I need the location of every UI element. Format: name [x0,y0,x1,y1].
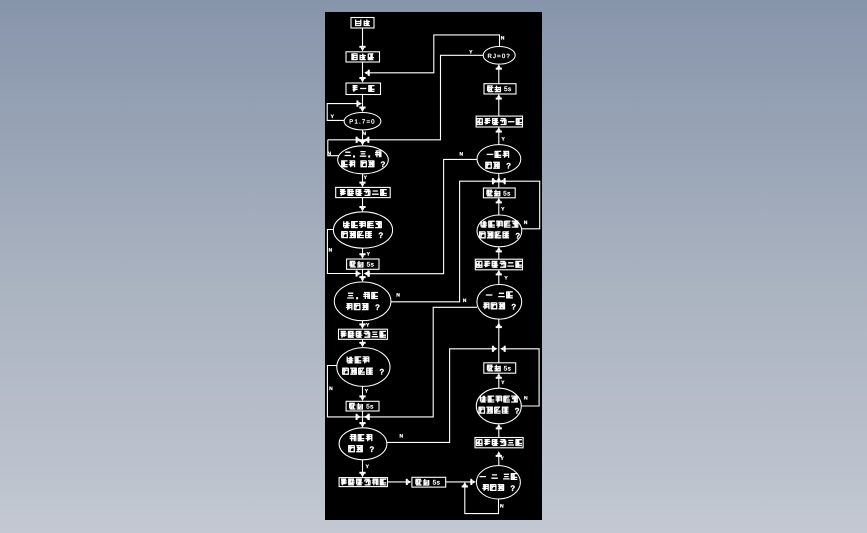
wire: 本楼1 N skip-loop [327,230,357,274]
process box: 上升到达三楼 [339,329,388,339]
svg-text:?: ? [515,231,520,240]
process box: 停留5s (3) [412,477,446,487]
svg-text:N: N [329,386,333,392]
wire: 停留5s2 -> 四楼有请求 with junction [362,411,364,424]
decision ellipse: RJ=0? [483,47,515,65]
decision ellipse: P1.7=0 [344,113,381,130]
decision ellipse: 二，三，四楼有请求? [338,146,389,174]
svg-text:?: ? [379,368,384,377]
svg-text:Y: Y [469,49,473,55]
svg-text:Y: Y [366,323,370,329]
wire: 下降到达一楼 -> 停留5s top [498,98,500,117]
process box: 下降到达三楼 [475,438,523,448]
process box: 在一楼 (at floor 1) [346,83,381,95]
process box: 停留5s (r2) [484,363,516,373]
process box: 上升到达四楼 [339,478,387,487]
decision ellipse: 本楼层是否请求目标? (r1) [477,215,522,247]
wire: P1.7=0 -> 二三四楼有请求 with junction [362,130,364,142]
decision ellipse: 一 二 三楼有请求? [476,466,520,499]
svg-text:Y: Y [364,175,368,181]
svg-text:Y: Y [504,275,508,281]
svg-text:5s: 5s [504,86,512,93]
decision ellipse: 本楼层是否请求目标? (1) [333,212,392,248]
svg-text:Y: Y [501,380,505,386]
wire: 下降到达三楼 -> 本楼r2 [498,427,500,437]
svg-text:?: ? [510,484,515,493]
process box: 下降到达一楼 [476,116,522,127]
wire: 在一楼 -> P1.7=0 [362,95,364,109]
wire: 开始 -> 初始化 [362,28,364,48]
svg-text:5s: 5s [366,404,374,411]
junction arrows at y=181.2 right column [492,178,494,184]
svg-text:?: ? [511,302,516,311]
svg-text:5s: 5s [503,190,511,197]
junction arrows at y=348.8 right column [492,346,494,352]
wire: 本楼2 N skip-loop [327,366,357,417]
wire: 一楼 N -> far left down to junction y=273.5 [368,159,477,273]
svg-text:?: ? [369,445,374,454]
process box: 下降到达二楼 [475,259,522,270]
svg-text:?: ? [375,303,380,312]
process box: 停留5s (2) [346,401,379,411]
process box: 停留5s (r1) [483,188,515,198]
wire: 四楼 N -> right up to junction y=348.8 [387,349,494,443]
svg-text:5s: 5s [367,262,375,269]
svg-text:N: N [396,293,400,299]
wire: 停留5s1 -> 三四楼有请求 with junction [362,269,364,278]
wire: 上升到达二楼 -> 本楼层是否请求目标1 [362,198,364,208]
wire: 停留5sr2 -> 一二楼有请求 through junction [498,319,500,363]
process box: 初始化 (initialize) [346,52,380,62]
decision ellipse: 一，二楼有请求? [477,285,522,320]
process box: 上升到达二楼 [336,187,391,197]
svg-text:N: N [463,298,467,304]
arrowhead into 一楼 bottom [496,180,502,182]
decision ellipse: 三，四楼有请求? [334,282,391,321]
wire: 一二三楼 Y -> 下降到达三楼 [498,455,500,466]
svg-text:Y: Y [331,114,335,120]
svg-text:N: N [329,248,333,254]
svg-text:?: ? [378,231,383,240]
svg-text:?: ? [515,407,520,416]
svg-text:Y: Y [501,207,505,213]
svg-text:?: ? [506,162,511,171]
wire: 二三四楼 N self-loop left [328,140,339,156]
wire: 本楼r1 Y -> 停留5s r1 [498,201,500,215]
wire: 本楼r1 N skip-loop right [505,181,540,229]
svg-text:5s: 5s [433,480,441,487]
svg-text:Y: Y [366,464,370,470]
svg-text:Y: Y [501,456,505,462]
wire: 本楼2 Y -> 停留5s 2 [362,386,364,397]
wire: 停留5stop -> RJ=0 [498,68,500,84]
wire: 本楼1 Y -> 停留5s 1 [362,248,364,255]
wire: 一二三楼 N bottom self-loop [465,486,499,514]
decision ellipse: 四楼有请求? [339,428,387,460]
wire: 初始化 -> 在一楼 with feedback join [362,62,364,79]
svg-text:N: N [327,151,331,157]
wire: P1.7=0 Y self-loop [327,104,357,121]
wire: RJ=0 Y -> down to junction y=139.8 [360,55,483,140]
wire: 上升到达三楼 -> 本楼2 [362,339,364,344]
svg-text:5s: 5s [504,365,512,372]
wire: 三四楼 Y -> 上升到达三楼 [362,321,364,326]
wire: 二三四楼 Y -> 上升到达二楼 [362,174,364,184]
svg-text:RJ=0?: RJ=0? [487,53,511,60]
CAD viewport black canvas [325,12,542,520]
svg-text:N: N [524,396,528,402]
svg-text:N: N [501,35,505,41]
wire: 一二楼 Y -> 下降到达二楼 [498,273,500,284]
wire: RJ=0 N -> top left feedback to 在一楼 input [368,35,500,73]
process box: 停留5s (1) [347,259,379,269]
svg-text:?: ? [380,160,385,169]
decision ellipse: 本楼层 请求目标? (2) [337,348,390,387]
svg-text:Y: Y [367,252,371,258]
svg-text:N: N [362,131,366,137]
svg-text:N: N [524,220,528,226]
svg-text:N: N [399,433,403,439]
svg-text:N: N [459,152,463,158]
wire: 三四楼 N -> right up to junction y=181.2 [391,181,494,302]
wire: 四楼 Y -> 上升到达四楼 [362,460,364,474]
wire: 下降到达二楼 -> 本楼r1 [498,250,500,259]
junction arrows at y=139.8 [356,137,358,143]
decision ellipse: 本楼层是否请求目标? (r2) [476,388,521,424]
svg-text:Y: Y [502,136,506,142]
wire: 上升到达四楼 -> 停留5s 3 [388,481,408,483]
process box: 开始 (start) [351,18,374,29]
wire: 停留5s3 -> 一二三楼有请求 with junction [446,481,473,483]
junction arrows at y=273.5 [356,270,358,276]
wire: 一楼 Y -> 下降到达一楼 [498,131,500,145]
wire: 本楼r2 N skip-loop right [505,349,540,406]
junction arrows at y=416.9 [356,414,358,420]
wire: 本楼r2 Y -> 停留5s r2 [498,377,500,388]
wire: 停留5sr1 -> 一楼有请求 through junction [498,173,500,188]
arrowhead into 一二楼 bottom [496,326,502,328]
decision ellipse: 一楼有请求? [477,145,521,174]
svg-text:Y: Y [365,388,369,394]
svg-text:P1.7=0: P1.7=0 [349,119,375,126]
wire: 一二楼 N -> left down to junction y=416.9 [360,307,477,417]
svg-text:N: N [500,503,504,509]
process box: 停留5s (top) [484,84,516,94]
